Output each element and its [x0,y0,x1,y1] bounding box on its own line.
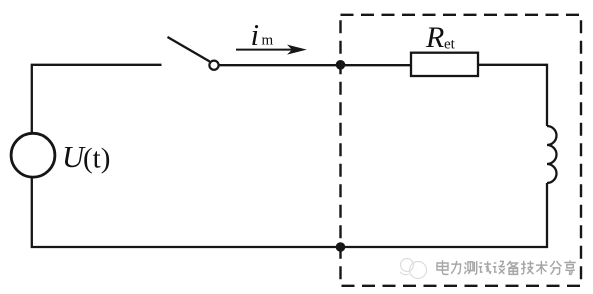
svg-text:i: i [251,17,260,52]
svg-text:m: m [262,33,274,49]
svg-text:(t): (t) [83,143,110,175]
svg-text:R: R [425,21,444,54]
svg-text:et: et [444,37,456,53]
